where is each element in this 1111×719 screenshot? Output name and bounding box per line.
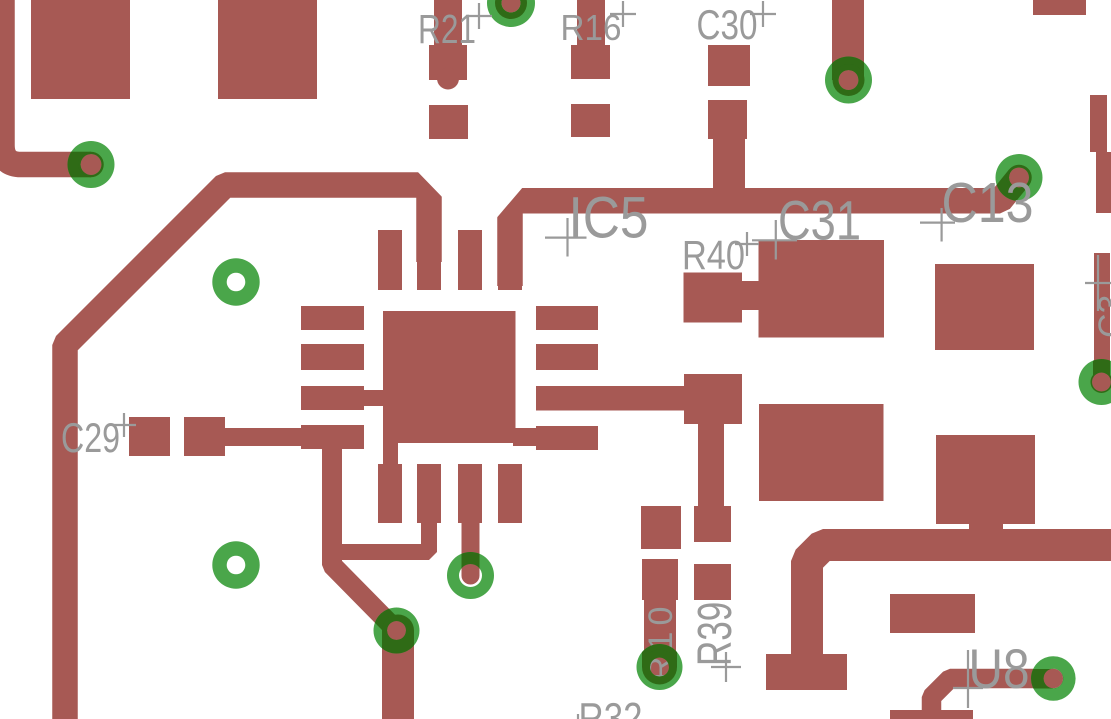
- via V11 dark overlap: [1091, 355, 1111, 393]
- wire top-right into via V2: [832, 0, 864, 68]
- resistor R10 pad 2: [642, 559, 678, 600]
- via V10 dark overlap: [1031, 669, 1063, 689]
- IC5 pad L3 neck to center: [362, 390, 384, 406]
- via V1 dark overlap: [495, 0, 527, 19]
- via V7 dark overlap: [340, 573, 414, 656]
- IC5 central pad: [383, 311, 516, 443]
- resistor R16 pad 2: [571, 104, 610, 137]
- crosshair C13: [920, 208, 955, 242]
- via V5 free ring: [212, 258, 259, 305]
- svg-text:C29: C29: [61, 414, 120, 461]
- capacitor C30 pad 1: [708, 45, 750, 86]
- IC5 pad L1: [301, 306, 364, 330]
- wire cap at via V9: [642, 650, 677, 685]
- crosshair C29: [112, 413, 136, 437]
- crosshair R21: [466, 3, 492, 29]
- wire big left trace: vertical, diagonal, horizontal to IC5 pin: [65, 185, 429, 719]
- IC5 pad B1: [378, 464, 402, 523]
- IC5 pad R3 + wire to R39 block: [536, 386, 686, 411]
- wire cap at via V8: [462, 567, 480, 585]
- resistor R21 top wire: [434, 0, 462, 46]
- svg-text:R40: R40: [682, 232, 745, 278]
- via V4 dark overlap: [980, 165, 1032, 201]
- wire cap at via V11: [1091, 371, 1111, 393]
- resistor R39 pad 2: [694, 564, 731, 600]
- IC5 pad L3: [301, 386, 364, 410]
- via V1 top center: ring: [487, 0, 535, 27]
- wire bus from IC5 pin T4 to via V4: [510, 178, 1019, 287]
- via V9 ring: [637, 644, 683, 690]
- wire right edge down to via V11: [1094, 253, 1110, 375]
- crosshair C31: [752, 220, 797, 260]
- pad above U8: [890, 594, 975, 633]
- pad top-left P1: [31, 0, 130, 99]
- wire long bottom trace from U8 stem to right edge: [807, 545, 1111, 688]
- via V9 dark overlap: [642, 640, 677, 685]
- crosshair U8: [953, 650, 983, 708]
- svg-text:C30: C30: [697, 1, 758, 48]
- IC5 pad T4: [498, 230, 522, 290]
- crosshair right edge: [1085, 255, 1111, 311]
- wire IC5 B3 down to via V8: [462, 520, 480, 576]
- via V4 ring: [996, 154, 1043, 201]
- capacitor C31 pad 1: [759, 240, 885, 338]
- svg-text:C13: C13: [942, 171, 1034, 234]
- resistor R39 pad 1: [694, 506, 731, 542]
- wire wide cap at via V7: [382, 615, 414, 647]
- crosshair R40: [735, 232, 759, 256]
- corner notch left of T4 bus bend: [497, 188, 523, 218]
- svg-text:C31: C31: [778, 189, 861, 252]
- resistor R40 pad left: [684, 273, 743, 323]
- IC5 pad T1: [378, 230, 402, 290]
- wire R10 down to via V9: [644, 600, 676, 655]
- svg-text:U8: U8: [969, 637, 1030, 700]
- svg-text:IC5: IC5: [569, 186, 649, 251]
- resistor R21 pad 1: [429, 45, 467, 80]
- IC5 pad T2: [417, 255, 441, 290]
- resistor R21 pad 2: [429, 105, 468, 139]
- IC5 pad B2: [417, 464, 441, 523]
- capacitor C30 pad 2: [708, 100, 747, 139]
- pad right edge A: [1090, 95, 1107, 152]
- pad right edge B: [1096, 152, 1111, 213]
- capacitor C29 pad 2: [184, 417, 225, 456]
- resistor R40 neck to C31: [740, 281, 760, 310]
- pad U8 bar: [766, 654, 847, 690]
- resistor R21 pad1 round stub: [437, 68, 459, 90]
- capacitor C30 wire down to bus: [713, 139, 745, 194]
- IC5 pad R1: [536, 306, 598, 330]
- block R39 upper: [684, 374, 742, 424]
- via V1 copper under hole: [502, 0, 521, 13]
- pad top-left P2: [218, 0, 317, 99]
- wire R39 neck down: [698, 423, 724, 506]
- crosshair IC5: [545, 218, 587, 257]
- svg-text:R39: R39: [688, 602, 742, 666]
- via V10 ring: [1031, 656, 1076, 701]
- capacitor C13 neck down: [969, 524, 1003, 534]
- crosshair R32: [577, 714, 579, 719]
- via V6 free ring: [212, 541, 259, 588]
- svg-text:C3: C3: [1092, 295, 1111, 338]
- via V2 ring: [825, 56, 872, 103]
- wire wide below via V7: [382, 631, 414, 719]
- wire U8 to via V10: [932, 679, 1054, 719]
- resistor R10 pad 1: [641, 506, 681, 549]
- IC5 pad B3: [458, 464, 482, 523]
- wire cap at via V2: [833, 64, 865, 96]
- wire C29 to IC5 L4: [225, 428, 305, 446]
- wire cap at via V10: [1044, 669, 1064, 689]
- wire top-left corner to via: [2, 0, 91, 165]
- wire IC5 L4 stub down and diagonal to via V7: [332, 449, 397, 631]
- wire end cap at via V3: [78, 152, 104, 178]
- IC5 pad L4: [301, 425, 364, 449]
- IC5 pad B4: [498, 464, 522, 523]
- via V3 dark overlap: [60, 152, 104, 178]
- IC5 pad R4 neck to center: [513, 428, 538, 446]
- crosshair R16: [610, 1, 636, 27]
- via V7 ring: [374, 608, 420, 654]
- IC5 pad R2: [536, 344, 598, 370]
- svg-text:R21: R21: [418, 6, 476, 52]
- resistor R16 top wire: [577, 0, 605, 46]
- IC5 pad R4: [536, 426, 598, 450]
- crosshair C30: [750, 1, 776, 27]
- via V2 dark overlap: [832, 40, 865, 96]
- capacitor C29 pad 1: [129, 417, 170, 456]
- via V11 ring right edge: [1079, 359, 1111, 405]
- via V3 ring: [67, 141, 114, 188]
- wire cap at via V7: [387, 621, 407, 641]
- corner notch right of T2 bend: [418, 172, 443, 198]
- IC5 pad B1 neck: [383, 443, 398, 464]
- capacitor C13 pad 1: [935, 264, 1034, 350]
- via V8 dark overlap: [462, 550, 480, 585]
- wire IC5 B2 down and left: [338, 515, 429, 552]
- wire cap at via V4: [1006, 165, 1032, 191]
- pad bottom edge under U8: [890, 710, 973, 719]
- IC5 pad T3: [458, 230, 482, 290]
- pad top-right corner: [1033, 0, 1086, 15]
- IC5 pad L2: [301, 344, 364, 370]
- svg-text:R32: R32: [579, 695, 643, 719]
- crosshair R39: [711, 652, 741, 682]
- via V8 ring: [447, 552, 494, 599]
- capacitor C31 pad 2: [759, 404, 884, 501]
- resistor R16 pad 1: [571, 45, 610, 79]
- capacitor C13 pad 2: [936, 435, 1035, 524]
